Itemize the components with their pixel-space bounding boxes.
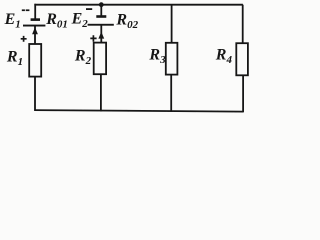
battery E2 negative short plate (96, 15, 106, 18)
wire R4 box bottom to bottom rail (right edge) (242, 75, 244, 112)
minus sign at E1 battery (printed as two short dashes) (22, 9, 25, 11)
wire R1 box bottom to bottom rail (34, 77, 36, 111)
battery E1 negative short plate (31, 18, 40, 21)
wire R3 box bottom to bottom rail (170, 75, 172, 112)
resistor R4 box (236, 43, 248, 75)
wire top rail (34, 4, 243, 6)
resistor R2 box (94, 43, 106, 75)
junction node dot on top rail at E2 branch (99, 2, 104, 7)
wire battery E2 to R2 box (100, 25, 102, 43)
wire bottom rail (34, 110, 243, 112)
wire branch E1 stub from top rail to battery (34, 4, 36, 20)
current arrow on E1 branch (32, 27, 38, 34)
plus sign at E1 branch (21, 36, 27, 42)
minus sign at E2 battery (86, 8, 92, 10)
wire R2 box bottom to bottom rail (100, 74, 102, 111)
wire branch R4 top (right edge) (242, 5, 244, 44)
plus sign at E2 branch (90, 35, 96, 41)
wire branch R3 top (171, 5, 173, 44)
resistor R3 box (166, 43, 178, 75)
current arrow on E2 branch (98, 32, 104, 39)
battery E2 positive long plate (88, 24, 114, 26)
battery E1 positive long plate (23, 25, 45, 27)
resistor R1 box (29, 44, 41, 77)
wire branch E2 stub from top rail to battery (100, 4, 102, 16)
wire battery E1 to R1 box (34, 26, 36, 44)
